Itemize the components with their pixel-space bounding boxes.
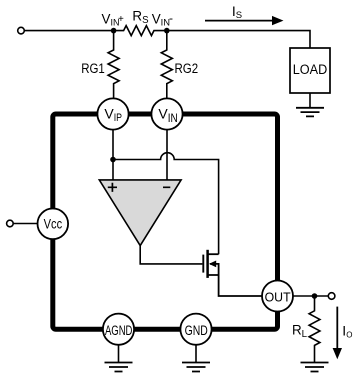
svg-text:Vcc: Vcc: [44, 217, 63, 232]
svg-text:RG1: RG1: [81, 61, 105, 76]
svg-text:OUT: OUT: [265, 289, 291, 304]
svg-text:AGND: AGND: [105, 323, 133, 338]
svg-text:LOAD: LOAD: [293, 62, 328, 77]
svg-text:RG2: RG2: [175, 61, 199, 76]
svg-text:GND: GND: [185, 323, 208, 338]
